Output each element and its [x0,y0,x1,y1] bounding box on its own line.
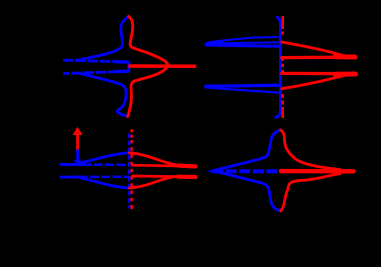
red vertical dashed line top P3 [130,129,132,139]
blue upper dash thick end segment P1 [115,60,129,64]
red vertical segment top P2 [281,16,284,26]
blue lower middle line solid tip segment P3 [60,176,85,179]
red vertical complementary dashed line P3 [130,139,132,211]
blue upper middle line solid tip segment P3 [60,163,85,166]
red vertical dash top P2 [281,26,284,36]
red upper middle line P3 [133,165,196,166]
blue upper neck/shoulder curve P1 [76,17,128,61]
red top neck curve P1 [129,16,168,65]
blue lower middle dashed line P3 [60,175,130,178]
blue vline solid segment upper P2 [279,45,282,58]
blue lower lens curve P3 [77,177,130,188]
blue lower dash thick end segment P1 [115,70,129,74]
blue upper wedge top sloping edge P2 [207,37,280,43]
blue down arrow P3 [73,150,81,165]
red lower spike curve P4 [281,174,340,211]
blue upper dashed line P1 [63,60,128,62]
blue vertical dashed line with end hooks P2 [276,17,281,117]
blue lower body curve P1 [77,73,128,117]
blue upper spike curve P4 [214,130,280,170]
red up arrow P3 [72,127,82,152]
red lower wedge thick end bar P2 [335,72,356,77]
blue lower wedge thick dashed edge P2 [206,85,281,86]
red lower wedge horizontal edge P2 [282,72,352,76]
red vertical dash segment bottom P2 [281,94,284,110]
red upper bar tip P3 [179,164,196,169]
blue vertical dashed line P3 [128,134,130,209]
red upper wedge horizontal edge P2 [282,56,352,60]
blue vline solid segment lower P2 [279,74,282,94]
blue lower wedge tip fill P2 [206,84,214,89]
red lower lens curve P3 [130,176,179,188]
red upper lens curve P3 [130,153,180,166]
blue left dashed bar P4 [212,169,281,173]
red lower middle line P3 [133,175,196,179]
blue lower dashed line P1 [63,71,128,73]
red upper wedge sloping edge P2 [282,42,345,56]
red vertical dash segment middle P2 [281,58,284,74]
red upper spike curve P4 [281,130,340,169]
red vertical segment bottom P2 [281,109,284,118]
blue lower wedge lower sloping edge P2 [207,88,280,93]
blue upper wedge middle edge P2 [207,42,281,43]
red nose lower arc P1 [128,66,168,117]
blue upper wedge thick dashed edge P2 [206,45,281,46]
blue lower spike curve P4 [214,171,280,211]
blue upper middle dashed line P3 [60,163,130,166]
red lower wedge sloping edge P2 [282,75,345,89]
red horizontal beam line P1 [129,64,197,68]
red upper wedge thick end bar P2 [335,54,355,59]
red lower bar tip P3 [178,175,196,180]
blue upper lens curve P3 [77,153,130,164]
blue upper wedge tip fill P2 [206,41,224,47]
red right bar P4 [281,169,354,174]
blue bracket at end of dashed lines P1 [127,61,130,72]
red vline bottom tail P3 [130,207,132,211]
blue left bar pointed tip P4 [206,169,221,174]
